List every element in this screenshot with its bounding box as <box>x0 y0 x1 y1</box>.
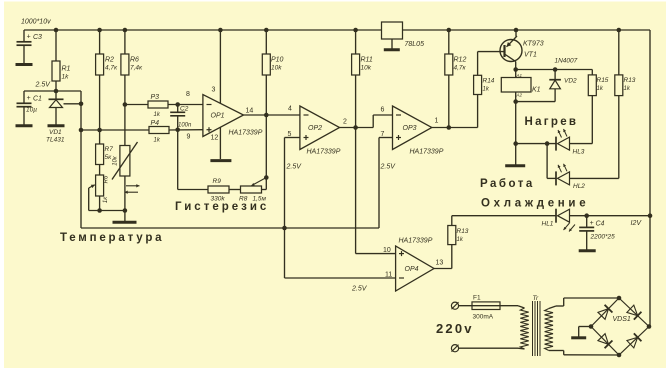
wire: OP2 output down to OP4 pin10 <box>356 128 396 254</box>
svg-text:2.5V: 2.5V <box>35 82 52 89</box>
op-amp OP1 HA17339P <box>203 95 244 137</box>
ground (78L05) <box>384 48 400 51</box>
label: pin 2 <box>343 119 347 126</box>
svg-text:R12: R12 <box>454 57 467 64</box>
svg-text:8: 8 <box>186 91 190 98</box>
label: pin 9 <box>187 134 191 141</box>
potentiometer R8 1,5M <box>239 178 267 203</box>
LED HL2 <box>556 164 570 186</box>
svg-text:C3: C3 <box>33 34 42 41</box>
capacitor C1 <box>17 91 43 125</box>
svg-text:R11: R11 <box>361 57 373 64</box>
svg-text:1k: 1k <box>597 86 604 92</box>
wire: secondary to bridge AC bottom <box>564 354 619 356</box>
svg-text:10к: 10к <box>113 155 119 166</box>
wire: 2.5V to OP3 pin7 <box>379 138 393 229</box>
svg-text:1k: 1k <box>624 86 631 92</box>
wire: R6 to thermistor node <box>123 75 128 142</box>
transformer Tr core <box>533 301 541 356</box>
svg-text:+: + <box>27 95 31 102</box>
svg-text:13: 13 <box>436 260 444 267</box>
svg-text:P4: P4 <box>151 120 160 127</box>
svg-text:OP1: OP1 <box>211 113 225 120</box>
label: VDS1 <box>613 316 631 323</box>
svg-text:1k: 1k <box>483 87 490 93</box>
svg-text:2: 2 <box>343 119 347 126</box>
op-amp OP3 HA17339P <box>393 106 432 150</box>
wire: collector to VD2/R15 <box>516 67 593 72</box>
wire: +12V top supply bus <box>24 29 650 31</box>
wire: relay to ground line <box>513 92 518 165</box>
svg-text:C1: C1 <box>33 96 42 103</box>
diode VDS1-a (L to T) <box>598 305 612 319</box>
wire: 1N4007 line to R15 <box>591 70 593 75</box>
svg-text:+: + <box>27 34 31 41</box>
svg-text:10µ: 10µ <box>26 107 37 114</box>
ground (bridge) <box>571 336 586 339</box>
resistor R12 4,7k <box>445 54 467 75</box>
svg-text:R6: R6 <box>104 175 110 183</box>
LED HL1 <box>556 209 575 232</box>
wire: sensor ground leg <box>124 211 126 222</box>
wire: OP4 output <box>434 245 452 269</box>
capacitor C2 <box>170 105 192 130</box>
label: HL2 <box>573 183 585 190</box>
wire: bus to R11 <box>353 28 358 54</box>
resistor R6 7,4k <box>121 54 143 75</box>
ground (C3) <box>16 63 33 66</box>
svg-text:VT1: VT1 <box>524 52 537 59</box>
svg-text:HL3: HL3 <box>573 149 585 156</box>
label: Охлаждение <box>481 198 589 210</box>
svg-text:F1: F1 <box>473 295 481 302</box>
terminal X2 (220V bottom) <box>451 345 458 352</box>
svg-text:2200*25: 2200*25 <box>590 234 616 241</box>
diode VDS1-c (L to B) <box>598 334 612 348</box>
op-amp OP2 HA17339P <box>300 106 340 150</box>
wire: trimmer wiper leg <box>89 188 128 213</box>
svg-text:TL431: TL431 <box>46 137 65 144</box>
wire: R12 to OP3 output <box>448 75 450 128</box>
label: HA17339P (OP3) <box>410 149 444 156</box>
label: 78L05 <box>405 41 425 48</box>
svg-text:2.5V: 2.5V <box>286 164 303 171</box>
svg-text:A2: A2 <box>516 93 523 98</box>
svg-text:R13: R13 <box>457 228 469 235</box>
label: HL3 <box>573 149 585 156</box>
ground (C1) <box>16 124 33 127</box>
terminal X1 (220V top) <box>451 302 458 309</box>
svg-text:VD2: VD2 <box>564 78 577 85</box>
wire: pin9 node down to R9 <box>178 130 208 190</box>
wire: R8 to OP1 output (feedback) <box>262 115 269 190</box>
wire: R14 to VT1 base <box>478 52 504 76</box>
svg-text:P3: P3 <box>151 94 160 101</box>
svg-text:+: + <box>590 220 594 227</box>
op-amp OP4 HA17339P <box>396 246 434 291</box>
svg-text:Работа: Работа <box>480 178 535 190</box>
label: pin 13 <box>436 260 444 267</box>
label: 2.5V (OP2) <box>286 164 303 171</box>
svg-text:VD1: VD1 <box>49 129 62 136</box>
label: 1000*10v <box>21 19 51 26</box>
svg-text:4: 4 <box>288 106 292 113</box>
label: VD2 <box>564 78 577 85</box>
svg-text:1k: 1k <box>457 237 464 243</box>
svg-text:HA17339P: HA17339P <box>307 149 341 156</box>
wire: OP3 output <box>432 125 478 130</box>
wire: right edge 12V riser (bridge + to bus) <box>649 30 651 327</box>
wire: bus to P10 <box>264 28 269 54</box>
label: VT1 <box>524 52 537 59</box>
svg-text:R14: R14 <box>483 78 495 85</box>
wire: 2.5V to OP2 pin5 <box>285 138 300 229</box>
resistor R1 <box>52 61 71 81</box>
resistor R13 (OP4 load) 1k <box>448 226 469 245</box>
wire: R9 to R8 <box>229 189 241 191</box>
svg-text:HA17339P: HA17339P <box>410 149 444 156</box>
svg-text:R6: R6 <box>130 57 139 64</box>
LED HL3 <box>556 129 570 151</box>
ground (relay) <box>505 164 525 167</box>
label: 220v <box>436 321 474 336</box>
label: pin 14 <box>246 108 254 115</box>
capacitor C3 <box>17 30 43 63</box>
ground (sensor) <box>113 221 137 224</box>
transformer Tr secondary winding <box>545 298 564 355</box>
wire: P10 to OP1 output <box>265 75 267 115</box>
svg-text:10k: 10k <box>271 65 282 72</box>
svg-text:R15: R15 <box>597 77 609 84</box>
svg-text:Гистерезис: Гистерезис <box>175 201 269 213</box>
transistor VT1 KT973 (PNP) <box>500 28 522 70</box>
shunt reference VD1 TL431 <box>49 91 82 125</box>
wire: bridge minus to ground <box>579 327 591 337</box>
svg-text:1k: 1k <box>154 112 161 118</box>
svg-text:R9: R9 <box>213 178 222 185</box>
wire: 2.5V reference node <box>24 89 81 94</box>
svg-text:R7: R7 <box>105 146 114 153</box>
svg-text:78L05: 78L05 <box>405 41 425 48</box>
resistor R11 10k <box>352 54 373 75</box>
svg-text:K1: K1 <box>532 87 541 94</box>
svg-text:I2V: I2V <box>631 220 643 227</box>
svg-text:1: 1 <box>435 118 439 125</box>
wire: 2.5V rail to OP4 pin11 <box>285 228 396 278</box>
label: KT973 <box>523 41 544 48</box>
label: HA17339P (OP1) <box>229 130 263 137</box>
label: 12V <box>631 220 643 227</box>
bridge rectifier VDS1 frame <box>589 296 652 358</box>
svg-text:6: 6 <box>381 107 385 114</box>
svg-text:OP3: OP3 <box>403 125 417 132</box>
wire: jog to OP3 pin6 <box>373 115 392 128</box>
voltage regulator 78L05 <box>382 22 403 49</box>
wire: P4 to pin9 node <box>169 128 203 133</box>
svg-text:2.5V: 2.5V <box>351 286 368 293</box>
capacitor C4 <box>579 216 615 250</box>
svg-text:9: 9 <box>187 134 191 141</box>
ground (VD1) <box>48 124 65 127</box>
wire: P3 to pin8 node <box>168 102 203 107</box>
svg-text:5к: 5к <box>105 154 113 161</box>
svg-text:300mA: 300mA <box>473 314 494 321</box>
svg-text:P10: P10 <box>271 57 284 64</box>
diode VDS1-d (B to R) <box>627 333 641 348</box>
wire: OP3 out up through R14 <box>477 95 479 128</box>
label: pin 4 <box>288 106 292 113</box>
svg-text:OP2: OP2 <box>308 125 322 132</box>
fuse F1 300mA <box>472 295 500 321</box>
label: pin 7 <box>381 131 385 138</box>
svg-text:A1: A1 <box>516 73 523 78</box>
svg-text:1k: 1k <box>154 138 161 144</box>
label: HL1 <box>542 221 554 228</box>
ground (OP1 pin12) <box>210 159 231 162</box>
label: pin 10 <box>383 247 391 254</box>
wire: OP2 output <box>340 125 374 130</box>
label: Tr <box>533 295 539 302</box>
potentiometer P4 <box>149 120 169 144</box>
svg-text:R1: R1 <box>62 66 71 73</box>
wire: HL1 to 12V node <box>570 213 653 218</box>
svg-text:KT973: KT973 <box>523 41 544 48</box>
svg-text:1k: 1k <box>62 74 70 81</box>
svg-text:10k: 10k <box>361 65 372 72</box>
svg-text:HL2: HL2 <box>573 183 585 190</box>
svg-text:Температура: Температура <box>60 232 164 244</box>
wire: bus to R12 <box>447 28 452 54</box>
wire: mains top lead <box>459 305 518 307</box>
wire: bus to R13 <box>617 28 622 75</box>
wire: R2 to divider node <box>99 75 101 130</box>
svg-text:OP4: OP4 <box>405 266 419 273</box>
label: pin 5 <box>288 131 292 138</box>
resistor R15 1k <box>588 75 609 96</box>
label: pin 3 <box>212 87 216 94</box>
label: Работа <box>480 178 535 190</box>
label: 2.5V (OP4) <box>351 286 368 293</box>
svg-text:4,7к: 4,7к <box>454 65 467 72</box>
svg-text:3: 3 <box>212 87 216 94</box>
svg-text:1000*10v: 1000*10v <box>21 19 51 26</box>
label: pin 11 <box>385 272 392 279</box>
wire: 2.5V bottom rail <box>81 226 379 231</box>
svg-text:12: 12 <box>211 135 219 142</box>
label: pin 8 <box>186 91 190 98</box>
relay K1 coil <box>501 73 540 98</box>
wire: secondary to bridge AC top <box>564 297 619 299</box>
wire: bus to OP1 pin3 <box>218 28 223 104</box>
svg-text:VDS1: VDS1 <box>613 316 631 323</box>
label: VD1 TL431 <box>46 129 65 144</box>
diode VDS1-b (T to R) <box>627 305 641 320</box>
thermistor RK1 10k <box>112 142 140 211</box>
diode VD2 1N4007 <box>516 70 561 102</box>
wire: 2.5V rail down left side <box>79 91 84 228</box>
svg-text:HA17339P: HA17339P <box>399 238 433 245</box>
transformer Tr primary winding <box>518 306 529 349</box>
ground (C4) <box>579 249 596 252</box>
wire: OP1 pin12 to ground <box>219 127 221 159</box>
svg-text:2.5V: 2.5V <box>380 164 397 171</box>
resistor R9 330k <box>208 178 229 203</box>
resistor R2 <box>96 54 118 75</box>
svg-text:7,4к: 7,4к <box>130 65 143 72</box>
potentiometer R6 1k (trimmer) <box>89 165 110 211</box>
wire: R11 to OP2 output <box>355 75 357 128</box>
label: pin 12 <box>211 135 219 142</box>
wire: mains bottom lead <box>459 347 518 349</box>
wire: OP1 output to OP2 in- <box>244 113 300 118</box>
label: Гистерезис <box>175 201 269 213</box>
wire: R15 to HL3 cathode <box>591 96 593 144</box>
svg-text:100n: 100n <box>178 123 192 129</box>
svg-text:C2: C2 <box>180 106 189 113</box>
wire: 12V cooling line <box>452 215 556 217</box>
resistor R14 1k <box>474 75 495 94</box>
wire: bus to R1 <box>54 28 59 61</box>
svg-text:Нагрев: Нагрев <box>525 116 579 128</box>
svg-text:R2: R2 <box>105 57 114 64</box>
svg-text:14: 14 <box>246 108 254 115</box>
potentiometer P3 <box>125 94 168 118</box>
svg-text:HA17339P: HA17339P <box>229 130 263 137</box>
wire: bus to R6 <box>123 28 128 54</box>
svg-text:HL1: HL1 <box>542 221 554 228</box>
label: Температура <box>60 232 164 244</box>
wire: HL3 to R15 <box>570 143 593 145</box>
label: 1N4007 <box>555 58 578 65</box>
svg-text:10: 10 <box>383 247 391 254</box>
label: pin 1 <box>435 118 439 125</box>
svg-text:220v: 220v <box>436 321 474 336</box>
svg-text:R13: R13 <box>624 77 636 84</box>
label: pin 6 <box>381 107 385 114</box>
label: HA17339P (OP4) <box>399 238 433 245</box>
wire: branch down to HL2 <box>547 144 556 179</box>
svg-text:C4: C4 <box>596 221 605 228</box>
potentiometer P10 <box>262 54 283 75</box>
resistor R13 1k <box>615 75 636 96</box>
wire: R13 to HL2 cathode <box>618 96 620 179</box>
svg-text:Tr: Tr <box>533 295 539 302</box>
svg-text:1N4007: 1N4007 <box>555 58 578 65</box>
wire: relay node to HL3 <box>516 141 556 146</box>
wire: branch to P4 / R7 divider <box>81 128 149 133</box>
wire: R13 to 12V line <box>451 216 453 226</box>
label: 2.5V (OP3) <box>380 164 397 171</box>
label: HA17339P (OP2) <box>307 149 341 156</box>
svg-text:4,7к: 4,7к <box>105 65 118 72</box>
wire: bus to R2 <box>97 28 102 54</box>
wire: VT1 collector node <box>513 67 518 77</box>
label: Нагрев <box>525 116 579 128</box>
label: 2.5V (reference) <box>35 82 52 89</box>
wire: HL2 to R13 <box>570 177 619 179</box>
wire: R1 to 2.5V node <box>55 81 57 91</box>
resistor R7 <box>96 130 114 165</box>
svg-text:Охлаждение: Охлаждение <box>481 198 589 210</box>
